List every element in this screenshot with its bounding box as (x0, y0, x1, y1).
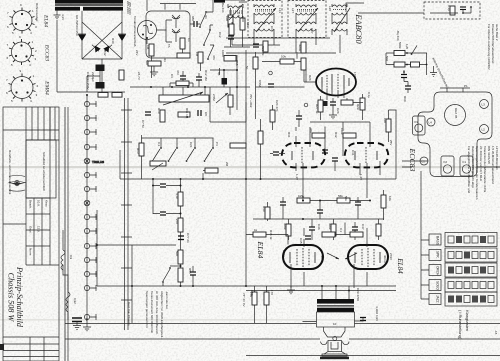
resistor R300 (224, 56, 236, 62)
left column divider (3, 130, 26, 224)
pot P4 (150, 161, 166, 166)
svg-text:P1: P1 (464, 84, 468, 88)
wire choke (63, 230, 68, 320)
capacitor C32 (332, 158, 338, 161)
switch S4 (205, 149, 212, 160)
svg-text:ECC83: ECC83 (408, 148, 417, 172)
electrolytic cap C42 (96, 65, 105, 72)
svg-text:C3: C3 (170, 74, 174, 78)
switch S1 (153, 149, 160, 160)
svg-text:56k: 56k (338, 194, 343, 198)
wires lower comps (268, 197, 379, 240)
node dots antenna (403, 52, 427, 73)
speaker flare (324, 352, 346, 355)
top grid rows (26, 130, 59, 140)
svg-text:Für Allstrom-Ausführung 110/22: Für Allstrom-Ausführung 110/220V (487, 24, 491, 70)
resistor R41 (178, 192, 183, 206)
svg-text:Klangtasten: Klangtasten (465, 310, 470, 331)
svg-text:10k: 10k (383, 118, 387, 123)
svg-text:F3: F3 (415, 120, 419, 124)
electrolytic cap C43 (96, 82, 105, 89)
svg-text:R10: R10 (157, 108, 161, 114)
svg-text:GEZ 65: GEZ 65 (454, 108, 458, 119)
tube EL84 b envelope (348, 245, 388, 269)
resistor R45 (253, 232, 266, 237)
title block inner divider (25, 107, 27, 265)
junction dots C16 (223, 69, 238, 88)
EL84 b electrodes (355, 248, 380, 267)
wire C16 (210, 55, 237, 110)
panel hole L4 (427, 118, 435, 126)
fine print right margin top (487, 24, 499, 70)
svg-text:Schaltbild ist urheberrechtlic: Schaltbild ist urheberrechtlich (42, 152, 46, 192)
svg-text:F2: F2 (444, 160, 448, 164)
transformer lead wires (303, 286, 364, 322)
svg-text:Abgleichen f ür UKW-Empfangs: Abgleichen f ür UKW-Empfangsteil... (160, 291, 164, 340)
transformer core lines (55, 4, 123, 6)
speaker magnet inner (331, 342, 338, 349)
wire hv rail (57, 20, 125, 92)
svg-text:1k: 1k (254, 228, 258, 232)
bus wire y286 (97, 285, 246, 287)
tube EABC80 envelope (316, 69, 356, 96)
svg-text:-kann wie bei: -kann wie bei (165, 291, 169, 309)
resistor R10k (228, 15, 233, 27)
wire switch column (190, 0, 214, 45)
svg-text:R32: R32 (334, 132, 338, 138)
top grid columns (32, 107, 55, 140)
svg-text:L27/L28-Minimum: L27/L28-Minimum (495, 146, 499, 171)
cathode resistor R48 (252, 292, 257, 305)
capacitor C7 (145, 112, 151, 115)
svg-text:Chassis 508 GW abweichend: Chassis 508 GW abweichend (491, 24, 495, 64)
socket EM84 pinout (6, 69, 39, 103)
svg-text:ECC83: ECC83 (44, 44, 50, 62)
heater wire top (160, 3, 196, 5)
resistor R47 (350, 232, 363, 237)
dashed box filter2 (288, 1, 326, 38)
svg-text:0,5M: 0,5M (258, 80, 262, 87)
scale lamp symbol 2 (84, 200, 90, 206)
svg-text:SPR.: SPR. (436, 251, 440, 259)
svg-text:L2: L2 (482, 128, 486, 132)
svg-text:500k: 500k (398, 42, 402, 49)
socket ECC83 pinout (7, 35, 38, 67)
wire through fuses (402, 161, 500, 167)
capacitor C4 (180, 76, 186, 79)
svg-text:25V: 25V (389, 140, 393, 145)
remote contents resistor (450, 6, 455, 15)
resistor R26 (301, 58, 306, 70)
diode D1 (78, 35, 86, 42)
title block outer frame (3, 107, 59, 361)
capacitor C44 (280, 202, 286, 205)
node dots feed (321, 285, 350, 292)
pot wiper arrow (163, 92, 203, 105)
resistor R27 (318, 100, 323, 112)
node dots mid (152, 185, 182, 215)
resistor R34 below (337, 198, 350, 203)
svg-text:C1: C1 (187, 38, 191, 42)
svg-text:U1: U1 (204, 15, 208, 19)
svg-text:DIN 41/21/38: DIN 41/21/38 (487, 146, 491, 164)
svg-text:5n: 5n (245, 66, 249, 70)
svg-text:0,1: 0,1 (339, 228, 343, 233)
capacitor coupling row above (305, 236, 311, 239)
connector ticks inner rail (121, 110, 132, 300)
svg-text:680: 680 (191, 16, 195, 21)
wire feed to remote (358, 12, 424, 14)
svg-text:2x50µF: 2x50µF (91, 72, 95, 82)
svg-text:C7 5n: C7 5n (141, 120, 145, 128)
resistor R37 (265, 207, 270, 219)
IFT4 coil pair (332, 4, 347, 35)
switch column K2 (204, 31, 210, 44)
wire R36 (260, 119, 262, 179)
vertical x396 (395, 110, 397, 179)
svg-text:56k: 56k (344, 196, 348, 201)
capacitor C77 (178, 236, 184, 240)
output transformer primary bottom (317, 308, 354, 312)
tube ECC83 b envelope dashed (345, 143, 388, 167)
antenna section resistor Ra1 (394, 51, 405, 56)
svg-text:TA: TA (167, 44, 171, 48)
IFT1 tuning arrow (229, 4, 243, 20)
svg-text:Norm: Norm (29, 248, 33, 256)
wires pot to bus (163, 87, 230, 115)
vertical x97 (96, 210, 98, 286)
pilot lamp connector rows (84, 101, 96, 320)
svg-text:R13: R13 (136, 148, 140, 154)
capacitor C45 (355, 202, 361, 205)
approval table rows (26, 107, 59, 265)
svg-text:0,92: 0,92 (73, 298, 77, 304)
svg-text:0,9: 0,9 (69, 255, 73, 260)
dark cap C48 (319, 101, 328, 106)
output transformer core (317, 304, 354, 306)
svg-text:2x: 2x (85, 318, 89, 322)
switch column K1 (200, 13, 206, 26)
capacitor C40 (160, 184, 166, 187)
panel fuse F1 (460, 156, 473, 176)
rear panel outline (418, 92, 492, 177)
resistor R60 (386, 119, 391, 132)
svg-text:C29 4700: C29 4700 (356, 288, 360, 301)
node dots lower (180, 265, 195, 287)
panel fuse F2 (441, 156, 454, 176)
svg-text:C42/43 350V: C42/43 350V (86, 72, 90, 90)
wires mid verticals (153, 171, 205, 241)
wires comp row (170, 68, 220, 87)
node dots (302, 200, 371, 221)
svg-text:Kess: Kess (45, 200, 49, 207)
vertical x246 (245, 95, 247, 286)
svg-text:50k: 50k (145, 60, 149, 65)
svg-text:Ged. Ital. Chassis: Ged. Ital. Chassis (127, 302, 131, 326)
svg-text:L1: L1 (422, 160, 426, 164)
row ORCH (429, 263, 497, 277)
svg-text:47k: 47k (309, 128, 313, 133)
ground cathode (287, 290, 295, 294)
IFT3 arrow (298, 8, 318, 32)
mains transformer primary bar (55, 0, 123, 4)
resistor R8h (176, 81, 189, 86)
svg-text:C26: C26 (336, 108, 340, 114)
capacitor C8 (198, 110, 201, 116)
IFT1 coil pair (228, 4, 243, 22)
svg-text:R12 1M: R12 1M (204, 70, 208, 81)
resistor R31 above (312, 133, 325, 138)
svg-text:R27 1k: R27 1k (315, 104, 319, 114)
svg-text:siehe Blatt 2: siehe Blatt 2 (495, 24, 499, 41)
resistor R35 (381, 195, 386, 208)
speaker neck (324, 327, 346, 337)
wire mid connects (256, 52, 307, 119)
wire y290 (246, 290, 396, 292)
logo emblem wings (9, 175, 26, 191)
svg-text:im 300 Volt- bzw. 30Volt-Bere: im 300 Volt- bzw. 30Volt-Bereich. (155, 291, 159, 335)
svg-text:10k: 10k (388, 196, 392, 201)
wires ecc stage bottom (296, 161, 380, 198)
note paragraph Spannungen (145, 291, 169, 340)
resistor R46 (322, 232, 335, 237)
svg-text:4,1Ωd 4,9V: 4,1Ωd 4,9V (375, 306, 379, 321)
capacitor C24 (268, 84, 274, 87)
switch S5 (163, 269, 170, 281)
svg-text:70V +Ub2: 70V +Ub2 (249, 94, 253, 108)
capacitor C11 (194, 21, 197, 27)
row SPRACHE (429, 248, 497, 262)
resistor R6 (177, 53, 190, 58)
wire row under filters (226, 38, 336, 53)
fine print right margin (467, 146, 499, 200)
switch S2 (169, 149, 176, 160)
diode D2 (118, 35, 126, 42)
svg-text:F1: F1 (463, 160, 467, 164)
IFT3b coil (296, 21, 316, 35)
choke L w1 (61, 250, 65, 270)
svg-text:50k: 50k (175, 251, 179, 256)
svg-text:C12: C12 (218, 32, 222, 38)
svg-text:R29: R29 (356, 104, 360, 110)
junction dots buses (86, 94, 262, 287)
wire bridge left leg (81, 11, 83, 59)
svg-text:500: 500 (385, 56, 389, 61)
svg-text:40mA: 40mA (383, 255, 387, 263)
ground lamp column (83, 327, 91, 331)
resistor R30 (270, 110, 275, 122)
wire socket to antenna (157, 20, 173, 42)
svg-text:47n: 47n (176, 70, 180, 75)
scan band artifact 2 (0, 319, 500, 321)
svg-text:R26: R26 (308, 75, 312, 81)
resistor R39 (119, 70, 124, 80)
capacitor C31 (322, 150, 328, 153)
panel hole L2 (480, 125, 489, 134)
svg-text:10k: 10k (281, 55, 286, 59)
svg-text:10: 10 (333, 322, 337, 326)
panel big socket GEZ65 (445, 105, 466, 126)
svg-text:170: 170 (270, 290, 274, 295)
svg-text:1000: 1000 (295, 52, 299, 59)
wires input net (183, 0, 244, 71)
svg-text:300k: 300k (328, 223, 332, 230)
remote wire (430, 7, 471, 14)
svg-text:C21: C21 (189, 142, 193, 148)
svg-text:-Bq 434: -Bq 434 (396, 30, 400, 41)
resistor R10 (160, 110, 165, 122)
wire cathodes (246, 286, 396, 323)
test point circle (269, 71, 273, 75)
svg-text:0,1µ: 0,1µ (367, 92, 371, 98)
EL84 a electrodes (290, 248, 315, 267)
svg-text:10.9.: 10.9. (37, 200, 41, 207)
svg-text:Gepr.: Gepr. (29, 226, 33, 234)
ground heater winding (54, 15, 61, 19)
svg-text:Ratiodetektor DIN-gerecht abgl: Ratiodetektor DIN-gerecht abgl. (471, 146, 475, 188)
svg-text:1,2V: 1,2V (359, 174, 363, 180)
antenna pickup symbol 2 (172, 29, 180, 42)
svg-text:C42: C42 (103, 50, 107, 56)
resistor R54 (178, 250, 183, 264)
top small wires (165, 4, 180, 10)
diode D3 (95, 46, 101, 53)
resistor R44 (178, 218, 183, 232)
ground C78 (73, 326, 81, 330)
svg-text:0,1µ: 0,1µ (237, 12, 241, 18)
row JAZZ (429, 292, 497, 306)
corner mark (0, 344, 4, 350)
svg-text:C27: C27 (310, 28, 314, 34)
IFT2b coil (254, 21, 274, 35)
svg-text:R31: R31 (287, 132, 291, 138)
pot P2 arrow (216, 93, 228, 103)
IFT4 arrow (334, 8, 350, 32)
wire bridge right leg (121, 11, 123, 59)
antenna pickup symbol 1 (172, 15, 180, 28)
antenna caps 2 (405, 86, 411, 89)
antenna caps (401, 75, 407, 78)
capacitor C78 (72, 318, 82, 326)
resistor C14 (240, 18, 245, 30)
svg-text:R60: R60 (403, 96, 407, 102)
wires lower chain (163, 240, 193, 287)
capacitor C47 (352, 227, 358, 230)
svg-text:Gl1 B250 C150: Gl1 B250 C150 (75, 15, 79, 36)
svg-text:24,7V: 24,7V (137, 72, 141, 80)
wire socket down (147, 0, 152, 78)
resistor R9 (228, 95, 233, 107)
svg-text:R3: R3 (163, 58, 167, 62)
remote contents cap (460, 7, 466, 10)
svg-text:-18: -18 (494, 330, 498, 335)
phono socket box (146, 11, 190, 58)
resistor R25 (253, 57, 258, 69)
mains transformer secondary bar (55, 7, 80, 11)
ECC83 a electrodes (292, 147, 313, 163)
svg-text:8µ: 8µ (217, 72, 221, 76)
svg-text:ZF 460 kHz und 10,7 MHz: ZF 460 kHz und 10,7 MHz (479, 146, 483, 182)
speaker center hole (333, 337, 337, 341)
mid connector wires (210, 50, 246, 122)
resistor R32 above (343, 133, 356, 138)
bus wire y355 (246, 355, 500, 357)
black mark top center (214, 0, 225, 3)
resistor R51 (331, 224, 336, 236)
svg-text:100k: 100k (340, 128, 344, 135)
svg-text:C35: C35 (299, 238, 303, 244)
svg-text:C24 47n: C24 47n (275, 100, 279, 112)
svg-text:EL84: EL84 (396, 257, 404, 274)
svg-text:R33: R33 (301, 196, 305, 202)
svg-text:40mA: 40mA (320, 255, 324, 263)
IFT2a coil (254, 4, 274, 21)
wires switch tops (142, 135, 214, 179)
antenna resistor Ra2 (394, 62, 405, 67)
socket pins (142, 34, 144, 36)
svg-text:C47: C47 (361, 224, 365, 230)
phono socket circle (138, 21, 157, 40)
svg-text:279V: 279V (389, 253, 393, 260)
remote node dots (462, 12, 464, 14)
svg-text:C17: C17 (270, 26, 274, 32)
svg-text:47k: 47k (212, 55, 216, 60)
capacitor C6 (196, 77, 202, 80)
wire inner rail (125, 98, 129, 330)
svg-text:L3: L3 (482, 103, 486, 107)
IFT2 arrow (256, 8, 276, 32)
antenna wires (386, 53, 427, 93)
volume pot P1 (159, 95, 209, 102)
svg-text:L4: L4 (429, 121, 433, 125)
resistor R5 50k (148, 61, 161, 66)
svg-text:27k: 27k (175, 219, 179, 224)
ground R5 (150, 66, 158, 76)
svg-text:SOLO: SOLO (436, 281, 440, 290)
capacitor C29 (360, 318, 366, 321)
bus wire y323 (65, 323, 500, 325)
capacitor C22 (253, 44, 259, 47)
tube EL84 a envelope (283, 245, 323, 269)
svg-text:1M: 1M (146, 45, 150, 50)
antenna resistor Ra3 (411, 62, 420, 67)
resistor R36 mid (258, 131, 263, 144)
resistor R24 (301, 42, 306, 53)
antenna switch arrow (412, 45, 417, 53)
resistor R13 (139, 143, 144, 156)
wire R60 (389, 110, 397, 142)
pot P4 arrow (152, 163, 163, 170)
ground IFT1 (239, 0, 247, 2)
row BASS (429, 233, 497, 247)
mains transformer secondary bar 2 (83, 7, 123, 11)
socket EL84 pinout (7, 3, 37, 35)
capacitor C25 (296, 116, 302, 119)
wires below row (253, 190, 384, 220)
svg-text:2M: 2M (225, 162, 229, 167)
ECC83 b electrodes (355, 147, 377, 163)
socket S curve (143, 25, 153, 33)
resistor R29 (360, 98, 365, 110)
svg-text:EL84: EL84 (256, 241, 265, 259)
phase arrows between tubes (327, 253, 339, 259)
svg-text:Texas-Instrument 666 Ohm/Vol: Texas-Instrument 666 Ohm/Volt (150, 291, 154, 333)
svg-text:( i Ruhestellung): ( i Ruhestellung) (458, 310, 463, 340)
dashed box remote (424, 2, 480, 19)
resistor R50 (286, 224, 291, 236)
svg-text:EABC80: EABC80 (354, 13, 363, 44)
svg-text:Bearb.: Bearb. (29, 200, 33, 209)
